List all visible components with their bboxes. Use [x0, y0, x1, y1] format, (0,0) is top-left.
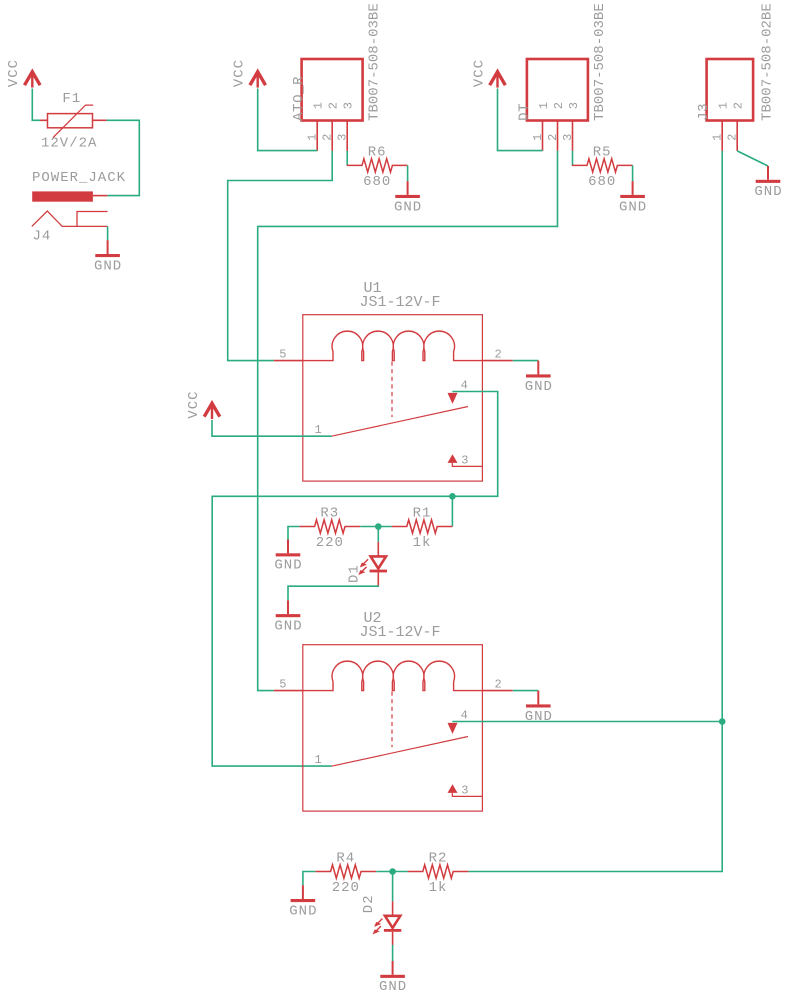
- pin 1 outer label of DT: [531, 134, 545, 141]
- wire DT pin 3 to R5: [572, 151, 574, 166]
- pin 3 inner label of ATO_R: [342, 102, 356, 109]
- svg-text:220: 220: [316, 535, 344, 551]
- svg-text:4: 4: [461, 709, 468, 723]
- ground of J3: [754, 166, 782, 200]
- svg-text:1: 1: [537, 102, 551, 109]
- wire junction to D2: [392, 872, 394, 902]
- svg-text:2: 2: [552, 102, 566, 109]
- pin 2 inner label of DT: [552, 102, 566, 109]
- pin 3 label of U2: [461, 784, 468, 798]
- relay U2 pin 2 stub: [482, 690, 512, 692]
- connector DT pin 3 stub: [572, 121, 574, 151]
- svg-text:GND: GND: [394, 199, 422, 215]
- svg-text:POWER_JACK: POWER_JACK: [32, 170, 126, 186]
- wire R5 to ground: [632, 165, 634, 181]
- relay U1 contact 3 lead: [452, 463, 482, 467]
- relay U1 dashed link: [391, 362, 393, 418]
- ground of R5: [619, 181, 647, 215]
- junction node at U2 pin 4 net: [719, 718, 726, 725]
- svg-text:DT: DT: [516, 103, 532, 121]
- pin 3 inner label of DT: [567, 102, 581, 109]
- relay U2 body: [303, 645, 483, 811]
- connector DT pin 2 stub: [557, 121, 559, 151]
- svg-text:2: 2: [495, 347, 502, 361]
- label R4: [336, 851, 355, 867]
- pin 1 label of U2: [315, 753, 322, 767]
- svg-text:GND: GND: [94, 258, 122, 274]
- wire junction down to R1: [451, 496, 453, 526]
- wire VCC to DT pin 1: [498, 89, 543, 151]
- svg-text:4: 4: [461, 379, 468, 393]
- label DT: [516, 103, 532, 121]
- connector DT pin 1 stub: [542, 121, 544, 151]
- LED D2: [373, 901, 402, 945]
- svg-text:3: 3: [342, 102, 356, 109]
- resistor R2: [408, 865, 469, 878]
- svg-text:J4: J4: [33, 229, 52, 245]
- svg-text:680: 680: [588, 174, 616, 190]
- ground of J4: [94, 240, 122, 274]
- wire ATO_R pin 3 to R6: [346, 151, 348, 166]
- relay U1 coil: [303, 331, 483, 360]
- power symbol VCC 2 (ATO_R): [232, 59, 266, 88]
- connector J3 body: [707, 59, 754, 121]
- wire R1 to R3: [360, 526, 391, 528]
- label R3: [320, 506, 339, 522]
- svg-text:TB007-508-02BE: TB007-508-02BE: [760, 3, 776, 121]
- svg-text:R6: R6: [368, 145, 387, 161]
- connector ATO_R pin 2 stub: [331, 121, 333, 151]
- svg-text:JS1-12V-F: JS1-12V-F: [360, 624, 441, 641]
- resistor R6: [347, 159, 408, 172]
- svg-text:J3: J3: [696, 103, 712, 121]
- wire junction to D1: [377, 527, 379, 542]
- wire U2 pin 4 to J3 net: [452, 721, 722, 723]
- pin 1 inner label of J3: [717, 102, 731, 109]
- svg-text:220: 220: [332, 880, 360, 896]
- pin 3 outer label of DT: [561, 134, 575, 141]
- svg-text:ATO_R: ATO_R: [291, 76, 307, 121]
- relay U2 coil: [303, 661, 483, 690]
- connector DT body: [527, 59, 588, 121]
- label ATO_R: [291, 76, 307, 121]
- pin 1 inner label of DT: [537, 102, 551, 109]
- wire J3 pin 2 to ground: [737, 151, 768, 166]
- label U2: [364, 610, 382, 627]
- svg-text:R1: R1: [413, 506, 432, 522]
- label R1: [413, 506, 432, 522]
- label R6: [368, 145, 387, 161]
- svg-text:GND: GND: [379, 979, 407, 995]
- part number TB007-508-03BE of DT: [592, 3, 608, 121]
- relay U2 contact 3 lead: [452, 793, 482, 797]
- wire ATO_R pin 2 to relay U1 pin 5: [228, 151, 333, 361]
- connector ATO_R pin 3 stub: [346, 121, 348, 151]
- svg-text:R5: R5: [593, 145, 612, 161]
- ground of R4: [289, 885, 317, 919]
- label F1: [62, 91, 81, 107]
- wire VCC to U1 pin 1: [212, 420, 332, 436]
- svg-text:TB007-508-03BE: TB007-508-03BE: [592, 3, 608, 121]
- svg-text:1: 1: [711, 134, 725, 141]
- svg-text:2: 2: [726, 134, 740, 141]
- wire U1 pin 4 to U2 pin 1: [212, 392, 498, 767]
- svg-text:GND: GND: [525, 709, 553, 725]
- svg-text:680: 680: [363, 174, 391, 190]
- relay U1 body: [303, 315, 483, 481]
- relay U2 contact 3 triangle: [448, 784, 458, 793]
- relay U1 pin 5 stub: [274, 360, 303, 362]
- wire R4 to ground: [303, 872, 316, 886]
- power jack J4 body: [32, 191, 107, 201]
- value JS1-12V-F of U1: [360, 294, 441, 311]
- label U1: [364, 280, 382, 297]
- label J3: [696, 103, 712, 121]
- pin 1 inner label of ATO_R: [312, 102, 326, 109]
- resistor R5: [572, 159, 633, 172]
- ground of R6: [394, 181, 422, 215]
- wire R3 to ground: [288, 527, 299, 540]
- svg-text:VCC: VCC: [186, 390, 202, 418]
- value 680 of R5: [588, 174, 616, 190]
- svg-text:D2: D2: [361, 894, 377, 913]
- svg-text:1: 1: [717, 102, 731, 109]
- svg-text:GND: GND: [754, 184, 782, 200]
- svg-text:2: 2: [327, 102, 341, 109]
- pin 1 label of U1: [315, 423, 322, 437]
- svg-text:2: 2: [732, 102, 746, 109]
- svg-text:2: 2: [546, 134, 560, 141]
- svg-text:1k: 1k: [429, 880, 448, 896]
- svg-text:R4: R4: [336, 851, 355, 867]
- wire VCC to fuse F1: [32, 89, 40, 121]
- value JS1-12V-F of U2: [360, 624, 441, 641]
- svg-text:GND: GND: [274, 558, 302, 574]
- wire VCC to ATO_R pin 1: [258, 89, 318, 151]
- svg-text:3: 3: [561, 134, 575, 141]
- pin 2 outer label of ATO_R: [321, 134, 335, 141]
- value 680 of R6: [363, 174, 391, 190]
- pin 1 outer label of ATO_R: [306, 134, 320, 141]
- junction node at D1 anode: [375, 523, 382, 530]
- svg-text:3: 3: [461, 454, 468, 468]
- label R2: [429, 851, 448, 867]
- connector J4 symbol: [32, 211, 108, 226]
- value 220 of R4: [332, 880, 360, 896]
- label D2: [361, 894, 377, 913]
- power symbol VCC 4 (U1 common): [186, 390, 220, 419]
- resistor R1: [392, 520, 453, 533]
- connector ATO_R pin 1 stub: [316, 121, 318, 151]
- wire fuse to power jack: [107, 120, 140, 195]
- pin 5 label of U2: [279, 677, 286, 691]
- connector J3 pin 1 stub: [721, 121, 723, 151]
- svg-text:GND: GND: [619, 199, 647, 215]
- pin 3 label of U1: [461, 454, 468, 468]
- wire D2 to ground: [392, 945, 394, 961]
- wire D1 to ground: [288, 586, 378, 601]
- value 1k of R1: [413, 535, 432, 551]
- junction node at U1 pin 4 net: [449, 493, 456, 500]
- svg-text:JS1-12V-F: JS1-12V-F: [360, 294, 441, 311]
- power symbol VCC 1 (power entry): [6, 59, 40, 88]
- ground of D1: [274, 600, 302, 634]
- wire U1 pin 2 to ground: [513, 360, 539, 362]
- value 12V/2A of F1: [41, 135, 97, 151]
- svg-text:1: 1: [306, 134, 320, 141]
- svg-text:5: 5: [279, 677, 286, 691]
- relay U2 pin 5 stub: [274, 690, 303, 692]
- svg-text:GND: GND: [274, 619, 302, 635]
- ground of R3: [274, 540, 302, 574]
- LED D1: [358, 542, 387, 586]
- part number TB007-508-02BE of J3: [760, 3, 776, 121]
- svg-text:GND: GND: [525, 379, 553, 395]
- wire J3 pin 1 down the right side: [468, 151, 722, 872]
- relay U1 switch arm: [332, 407, 469, 437]
- relay U2 dashed link: [391, 692, 393, 748]
- relay U2 switch arm: [332, 737, 469, 767]
- svg-text:D1: D1: [347, 564, 363, 583]
- pin 5 label of U1: [279, 347, 286, 361]
- svg-text:TB007-508-03BE: TB007-508-03BE: [367, 3, 383, 121]
- label R5: [593, 145, 612, 161]
- svg-text:12V/2A: 12V/2A: [41, 135, 97, 151]
- value 1k of R2: [429, 880, 448, 896]
- wire U2 pin 2 to ground: [513, 690, 539, 692]
- svg-text:1: 1: [315, 753, 322, 767]
- wire J4 to ground: [107, 226, 109, 240]
- svg-text:F1: F1: [62, 91, 81, 107]
- svg-text:GND: GND: [289, 903, 317, 919]
- svg-text:1: 1: [312, 102, 326, 109]
- svg-text:1: 1: [531, 134, 545, 141]
- ground of U1 pin 2: [525, 361, 553, 395]
- label J4: [33, 229, 52, 245]
- pin 2 inner label of ATO_R: [327, 102, 341, 109]
- label D1: [347, 564, 363, 583]
- relay U1 pin 2 stub: [482, 360, 512, 362]
- connector J3 pin 2 stub: [736, 121, 738, 151]
- svg-text:VCC: VCC: [232, 59, 248, 87]
- wire R4 to R2: [376, 871, 407, 873]
- ground of U2 pin 2: [525, 691, 553, 725]
- svg-text:VCC: VCC: [6, 59, 22, 87]
- svg-text:3: 3: [461, 784, 468, 798]
- pin 2 label of U1: [495, 347, 502, 361]
- ground of D2: [379, 961, 407, 995]
- part number TB007-508-03BE of ATO_R: [367, 3, 383, 121]
- svg-text:R3: R3: [320, 506, 339, 522]
- wire DT pin 2 to relay U2 pin 5: [258, 151, 558, 691]
- svg-text:3: 3: [336, 134, 350, 141]
- svg-text:1: 1: [315, 423, 322, 437]
- power symbol VCC 3 (DT): [471, 59, 505, 88]
- svg-text:2: 2: [495, 677, 502, 691]
- pin 2 outer label of DT: [546, 134, 560, 141]
- junction node at D2 anode: [389, 868, 396, 875]
- connector ATO_R body: [302, 59, 363, 121]
- relay U1 contact 4 triangle: [448, 393, 458, 404]
- resistor R4: [315, 865, 376, 878]
- wire R6 to ground: [407, 165, 409, 181]
- svg-text:2: 2: [321, 134, 335, 141]
- svg-text:R2: R2: [429, 851, 448, 867]
- svg-text:3: 3: [567, 102, 581, 109]
- pin 3 outer label of ATO_R: [336, 134, 350, 141]
- svg-text:1k: 1k: [413, 535, 432, 551]
- svg-text:VCC: VCC: [471, 59, 487, 87]
- resistor R3: [299, 520, 360, 533]
- value 220 of R3: [316, 535, 344, 551]
- pin 2 outer label of J3: [726, 134, 740, 141]
- pin 2 label of U2: [495, 677, 502, 691]
- pin 1 outer label of J3: [711, 134, 725, 141]
- label POWER_JACK: [32, 170, 126, 186]
- svg-text:5: 5: [279, 347, 286, 361]
- relay U1 contact 3 triangle: [448, 454, 458, 463]
- fuse F1 symbol: [40, 105, 107, 138]
- pin 4 label of U1: [461, 379, 468, 393]
- pin 4 label of U2: [461, 709, 468, 723]
- pin 2 inner label of J3: [732, 102, 746, 109]
- relay U2 contact 4 triangle: [448, 723, 458, 734]
